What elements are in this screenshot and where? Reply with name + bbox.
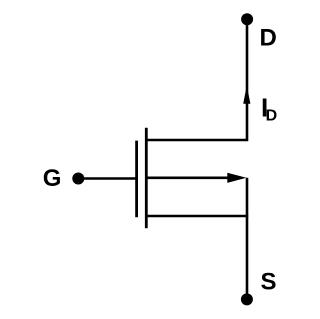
node G terminal dot	[72, 173, 84, 185]
transistor Q1 channel bar	[145, 128, 148, 229]
wire source vertical (arrow tip down to S terminal)	[246, 178, 249, 300]
svg-text:D: D	[266, 107, 278, 124]
svg-text:G: G	[43, 165, 62, 192]
node D terminal dot	[241, 13, 253, 25]
wire gate (G terminal to gate bar)	[78, 177, 136, 180]
arrowhead substrate (points right)	[227, 173, 246, 183]
node S terminal dot	[241, 293, 253, 305]
arrowhead ID current (points up)	[243, 86, 250, 104]
wire body/substrate (horizontal with arrow)	[146, 177, 232, 180]
wire drain (horizontal then up to D terminal)	[146, 19, 247, 140]
transistor Q1 gate bar	[135, 141, 138, 218]
wire source (horizontal from channel)	[146, 215, 248, 218]
svg-text:S: S	[261, 269, 277, 296]
svg-text:D: D	[260, 25, 277, 52]
